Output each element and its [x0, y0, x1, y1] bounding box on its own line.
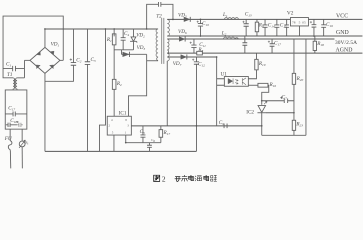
svg-text:T1: T1: [7, 72, 13, 78]
capacitor C17b: [268, 39, 281, 53]
resistor R17: [159, 126, 170, 143]
capacitor C13: [242, 12, 251, 36]
AC lead right: [21, 147, 23, 169]
diode VD6: [178, 29, 187, 42]
svg-text:R20: R20: [296, 76, 304, 82]
wire drain path: [128, 54, 146, 116]
capacitor before V2: [284, 19, 289, 36]
wire bottom return: [262, 134, 306, 136]
fuse FU: [4, 129, 13, 150]
resistor R18: [313, 36, 324, 53]
bridge rectifier VD1: [30, 42, 60, 74]
wire TL431 ref line: [266, 112, 294, 114]
capacitor C10: [197, 19, 210, 36]
svg-text:3: 3: [127, 124, 129, 128]
svg-text:8: 8: [125, 118, 127, 122]
svg-text:VCC: VCC: [336, 14, 348, 20]
svg-text:30V/2.5A: 30V/2.5A: [335, 40, 357, 46]
svg-text:IC2: IC2: [246, 110, 254, 116]
capacitor across GND/AGND: [242, 36, 247, 53]
wire opto feed vertical: [216, 57, 218, 126]
svg-text:R19: R19: [258, 61, 266, 67]
svg-text:2: 2: [162, 175, 166, 184]
transformer T1 common-mode choke: [3, 69, 24, 90]
wire GND rail: [167, 35, 362, 37]
wire AGND rail: [167, 52, 362, 54]
EMI filter box: [5, 90, 27, 129]
wire feedback winding return: [166, 61, 168, 126]
capacitor C15b electrolytic: [310, 19, 317, 36]
svg-text:C10: C10: [202, 21, 209, 27]
capacitor C14: [263, 19, 275, 36]
capacitor C18 inside filter box: [6, 118, 23, 127]
capacitor C12: [192, 57, 205, 151]
diode VD7: [173, 54, 187, 67]
thermistor RT: [19, 129, 29, 148]
svg-text:4: 4: [111, 118, 113, 122]
diode VD3: [121, 45, 146, 57]
resistor R19: [255, 53, 266, 70]
resistor R9: [255, 19, 264, 36]
wire U1 left pins: [217, 79, 225, 86]
capacitor C5: [140, 126, 146, 143]
svg-text:C17: C17: [8, 106, 15, 112]
inductor L1: [222, 12, 238, 19]
svg-text:C12: C12: [198, 62, 205, 68]
svg-text:C18: C18: [10, 118, 17, 124]
transformer T2: [156, 14, 169, 64]
svg-text:C14: C14: [268, 23, 275, 29]
svg-text:R23: R23: [295, 122, 303, 128]
wire VD7 output line: [167, 56, 216, 58]
svg-text:05: 05: [302, 20, 306, 24]
svg-text:C13: C13: [245, 12, 252, 18]
svg-text:5: 5: [299, 20, 301, 24]
wire primary bottom lead: [147, 60, 158, 62]
wire sense divider drop: [305, 39, 307, 135]
wire bridge left corner to C1 node: [24, 59, 30, 61]
resistor R16: [248, 82, 276, 105]
svg-text:VD3: VD3: [137, 45, 146, 51]
caption figure title: [154, 175, 217, 184]
diode VD5: [178, 12, 190, 22]
capacitor C1: [3, 62, 24, 72]
svg-text:VD5: VD5: [178, 12, 187, 18]
wire bridge left stub down: [23, 60, 25, 78]
capacitor C4: [121, 29, 130, 50]
capacitor C17 inside filter box: [5, 106, 27, 117]
svg-text:GND: GND: [336, 30, 349, 36]
capacitor C16: [321, 19, 333, 36]
svg-text:2: 2: [108, 124, 110, 128]
wire IC1 comp pin: [126, 135, 161, 143]
resistor R1: [106, 29, 116, 45]
shunt regulator IC2: [246, 101, 267, 135]
wire U1 collector pin: [248, 70, 256, 79]
svg-text:C4: C4: [124, 31, 129, 37]
capacitor C6: [147, 138, 155, 151]
svg-text:C17: C17: [274, 41, 281, 47]
resistor R20: [292, 39, 303, 120]
svg-text:C9: C9: [219, 120, 224, 126]
wire C7 line: [262, 100, 294, 102]
capacitor C2: [70, 29, 82, 65]
node junction dots: [44, 19, 315, 144]
resistor R23: [292, 120, 303, 135]
wire 30V rail: [167, 38, 334, 40]
AC lead left: [9, 151, 11, 169]
svg-text:VD7: VD7: [173, 61, 182, 67]
wire IC1 ground pin: [113, 135, 115, 151]
wire bridge top to DC+ rail: [44, 29, 46, 47]
svg-text:R18: R18: [316, 41, 324, 47]
svg-text:C5: C5: [140, 129, 145, 135]
IC1 control chip: [107, 111, 131, 136]
wire primary ground rail: [45, 150, 197, 152]
resistor R2: [112, 45, 122, 116]
svg-text:V2: V2: [287, 11, 294, 17]
capacitor C7: [280, 95, 287, 104]
wire DC+ rail: [45, 28, 158, 30]
svg-text:VD6: VD6: [178, 29, 187, 35]
svg-text:C1: C1: [6, 62, 11, 68]
svg-text:L1: L1: [222, 12, 228, 18]
wire VCC line: [167, 18, 362, 20]
capacitor C3: [85, 29, 96, 151]
capacitor C9: [219, 120, 227, 128]
svg-text:78: 78: [292, 20, 296, 24]
svg-text:VD1: VD1: [51, 42, 60, 48]
wire bridge bottom to ground rail: [44, 73, 46, 151]
capacitor C15: [274, 19, 287, 36]
voltage regulator V2: [287, 11, 309, 37]
svg-text:C3: C3: [90, 57, 95, 63]
svg-text:AGND: AGND: [335, 48, 352, 54]
svg-text:5: 5: [112, 131, 114, 135]
svg-text:L2: L2: [221, 31, 227, 37]
svg-text:C16: C16: [326, 22, 333, 28]
svg-text:VD2: VD2: [136, 33, 145, 39]
wire C2 bottom link: [45, 65, 73, 81]
wire clamp bus: [114, 49, 133, 51]
svg-text:T2: T2: [156, 14, 162, 20]
wire bridge right stub: [60, 59, 63, 61]
snubber loop capacitor C: [147, 2, 173, 29]
wire AC input top loop: [3, 16, 63, 68]
svg-text:R17: R17: [162, 130, 170, 136]
svg-text:R2: R2: [116, 81, 122, 87]
wire startup tap: [99, 29, 105, 151]
wire feedback line: [131, 125, 261, 127]
optocoupler U1: [220, 72, 248, 87]
zener diode VD2: [130, 29, 145, 50]
capacitor C11: [190, 39, 207, 53]
svg-text:1: 1: [125, 131, 127, 135]
svg-text:C2: C2: [76, 58, 81, 64]
svg-text:IC1: IC1: [119, 111, 127, 117]
svg-text:R1: R1: [106, 37, 112, 43]
resistor R8: [197, 47, 204, 55]
svg-text:R16: R16: [268, 82, 276, 88]
inductor L2: [221, 31, 239, 39]
